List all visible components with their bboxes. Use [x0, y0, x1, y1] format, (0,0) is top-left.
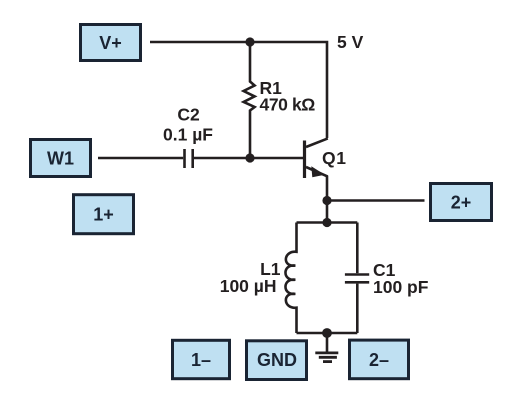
terminal GND — [247, 341, 307, 380]
svg-text:1+: 1+ — [93, 205, 114, 225]
svg-text:100 pF: 100 pF — [373, 277, 429, 297]
svg-text:2+: 2+ — [451, 193, 472, 213]
capacitor C1 — [345, 223, 369, 334]
svg-text:W1: W1 — [47, 149, 74, 169]
terminal 1- — [173, 340, 230, 378]
label 5 V — [337, 32, 364, 52]
terminal V+ — [81, 25, 141, 61]
wire W1 to C2 — [98, 157, 183, 160]
node tank top junction — [322, 218, 331, 227]
svg-text:Q1: Q1 — [322, 148, 347, 168]
wire tank top rail — [297, 221, 358, 224]
svg-text:2–: 2– — [369, 350, 389, 370]
label L1 — [260, 259, 281, 279]
node base junction — [245, 153, 254, 162]
terminal 2+ — [431, 184, 492, 221]
wire C2 to Q1 base — [194, 157, 303, 160]
label 0.1 µF — [163, 125, 213, 145]
node top rail junction — [245, 37, 254, 46]
label 470 kΩ — [260, 95, 316, 115]
label 100 pF — [373, 277, 429, 297]
label C1 — [373, 260, 396, 280]
terminal W1 — [31, 140, 91, 177]
label 100 µH — [220, 276, 277, 296]
capacitor C2 — [185, 149, 193, 168]
resistor R1 — [244, 42, 255, 158]
svg-text:0.1 µF: 0.1 µF — [163, 125, 213, 145]
wire Q1 emitter down to tank — [326, 176, 329, 223]
svg-text:V+: V+ — [99, 33, 122, 53]
inductor L1 — [285, 223, 296, 334]
terminal 2- — [350, 340, 409, 379]
node emitter junction — [322, 196, 331, 205]
node ground junction — [322, 328, 332, 338]
label R1 — [260, 78, 283, 98]
svg-text:C2: C2 — [177, 105, 200, 125]
label C2 — [177, 105, 200, 125]
ground — [315, 333, 338, 362]
svg-text:1–: 1– — [191, 350, 211, 370]
transistor Q1 — [305, 138, 328, 178]
wire tank bottom rail — [297, 332, 358, 335]
svg-text:100 µH: 100 µH — [220, 276, 277, 296]
label Q1 — [322, 148, 347, 168]
wire V+ to 5V rail and down to collector — [150, 42, 327, 138]
svg-text:GND: GND — [257, 350, 297, 370]
wire emitter junction to 2+ — [327, 199, 425, 202]
svg-text:5 V: 5 V — [337, 32, 364, 52]
svg-text:470 kΩ: 470 kΩ — [260, 95, 316, 115]
terminal 1+ — [74, 195, 134, 234]
